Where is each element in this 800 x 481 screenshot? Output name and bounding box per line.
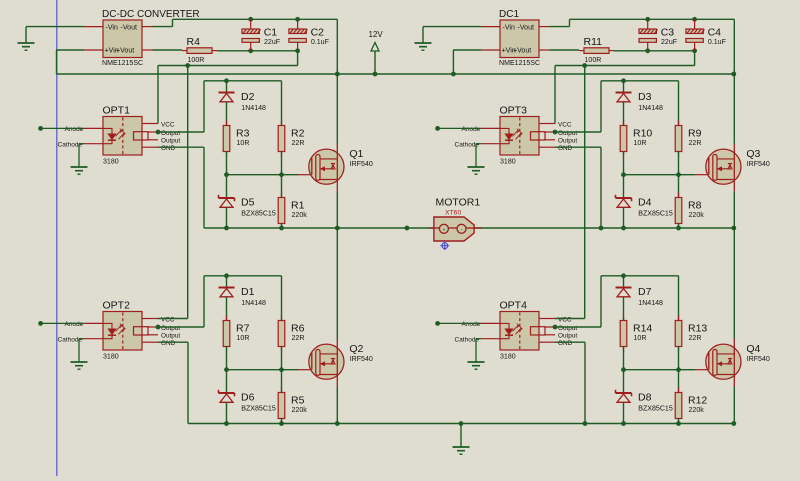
origin marker — [442, 243, 448, 249]
wire — [678, 370, 680, 393]
svg-text:OPT3: OPT3 — [500, 105, 528, 117]
svg-text:NME1215SC: NME1215SC — [102, 60, 143, 67]
wire -Vout — [153, 26, 173, 28]
svg-text:10R: 10R — [237, 140, 250, 147]
svg-text:3180: 3180 — [103, 354, 119, 361]
optocoupler OPT4 — [500, 312, 539, 351]
junction — [676, 172, 681, 177]
wire — [226, 403, 228, 424]
VCC net wire — [158, 65, 298, 67]
wire — [623, 208, 625, 229]
wire to ground — [460, 424, 462, 448]
VCC feed OPT4 — [555, 318, 585, 320]
anode wire OPT1 — [84, 127, 103, 129]
capacitor C3 — [647, 19, 649, 29]
source wire Q2 — [336, 387, 338, 424]
svg-text:-Vout: -Vout — [121, 24, 137, 31]
junction — [224, 273, 229, 278]
wire — [678, 175, 680, 198]
wire — [226, 102, 228, 126]
svg-text:C2: C2 — [311, 27, 325, 39]
optocoupler OPT3 — [500, 117, 539, 156]
svg-text:3180: 3180 — [500, 159, 516, 166]
wire — [297, 51, 299, 66]
wire — [623, 297, 625, 321]
VCC net wire — [555, 65, 695, 67]
pin Output1 stub OPT2 — [147, 326, 158, 328]
svg-text:D1: D1 — [241, 286, 255, 298]
ground at OPT4 cathode — [468, 361, 485, 363]
VCC feed riser to lower driver — [187, 66, 189, 319]
pin GND stub OPT4 — [539, 341, 555, 343]
svg-text:IRF540: IRF540 — [350, 356, 373, 363]
pin VCC stub OPT2 — [142, 318, 158, 320]
wire — [281, 224, 283, 229]
svg-text:VCC: VCC — [161, 316, 175, 323]
pin stubs — [84, 26, 103, 28]
MOSFET Q1 — [309, 149, 344, 184]
node output dot OPT2 — [156, 325, 161, 330]
LED inside OPT1 — [103, 128, 112, 133]
svg-text:GND: GND — [161, 340, 176, 347]
wire — [678, 224, 680, 229]
pin Output2 stub OPT1 — [147, 139, 158, 141]
svg-text:D4: D4 — [638, 197, 652, 209]
cap rail — [217, 50, 298, 52]
riser to 12V bus — [56, 50, 58, 74]
svg-text:-Vout: -Vout — [518, 24, 534, 31]
svg-text:VCC: VCC — [558, 121, 572, 128]
wire — [281, 81, 283, 126]
wire — [623, 276, 625, 287]
ground at -Vin — [415, 42, 432, 44]
diode D2 — [219, 92, 235, 94]
node output dot OPT1 — [156, 130, 161, 135]
capacitor C4 — [694, 19, 696, 29]
wire -Vout — [550, 26, 570, 28]
pin GND stub OPT1 — [142, 146, 158, 148]
resistor R14 — [620, 321, 627, 347]
MOSFET Q2 — [309, 344, 344, 379]
svg-text:BZX85C15: BZX85C15 — [241, 406, 276, 413]
junction — [224, 367, 229, 372]
svg-text:0.1uF: 0.1uF — [311, 39, 330, 46]
svg-text:Anode: Anode — [462, 321, 481, 328]
svg-text:GND: GND — [558, 145, 573, 152]
cathode wire OPT4 — [481, 338, 500, 340]
svg-text:Output: Output — [161, 325, 180, 332]
svg-text:100R: 100R — [585, 57, 602, 64]
svg-text:DC-DC CONVERTER: DC-DC CONVERTER — [102, 9, 200, 20]
svg-text:C3: C3 — [661, 27, 675, 39]
svg-text:R4: R4 — [187, 36, 201, 48]
svg-text:100R: 100R — [188, 57, 205, 64]
gate wire to Q1 — [227, 174, 299, 176]
anode wire OPT4 — [481, 322, 500, 324]
wire — [678, 347, 680, 370]
anode wire OPT2 — [84, 322, 103, 324]
cathode wire OPT3 — [481, 143, 500, 145]
resistor R13 — [675, 321, 682, 347]
anode terminal OPT2 — [38, 321, 43, 326]
junction — [224, 421, 229, 426]
svg-text:BZX85C15: BZX85C15 — [638, 211, 673, 218]
svg-text:22uF: 22uF — [264, 39, 281, 46]
ground at OPT3 cathode — [468, 166, 485, 168]
svg-text:R11: R11 — [584, 36, 603, 48]
resistor R6 — [278, 321, 285, 347]
wire — [281, 419, 283, 424]
svg-text:-: - — [461, 227, 463, 233]
junction — [645, 17, 650, 22]
svg-text:22R: 22R — [292, 140, 305, 147]
svg-text:Anode: Anode — [65, 321, 84, 328]
svg-text:Output: Output — [161, 130, 180, 137]
pin Output2 stub OPT3 — [544, 139, 555, 141]
resistor R2 — [278, 126, 285, 152]
pin GND stub OPT2 — [142, 341, 158, 343]
wire — [226, 370, 228, 393]
svg-text:+Vout: +Vout — [116, 47, 134, 54]
svg-text:22uF: 22uF — [661, 39, 678, 46]
svg-text:D3: D3 — [638, 91, 652, 103]
drain wire Q2 — [336, 228, 338, 339]
svg-text:R13: R13 — [688, 322, 707, 334]
wire — [678, 152, 680, 175]
junction — [224, 172, 229, 177]
svg-text:R2: R2 — [291, 127, 305, 139]
zener diode D6 — [219, 392, 235, 394]
junction — [645, 48, 650, 53]
pin Output2 stub OPT4 — [544, 334, 555, 336]
diode D7 — [616, 287, 632, 289]
svg-text:Q3: Q3 — [746, 148, 760, 160]
svg-text:BZX85C15: BZX85C15 — [638, 406, 673, 413]
svg-text:220k: 220k — [292, 212, 308, 219]
svg-text:MOTOR1: MOTOR1 — [436, 197, 481, 209]
junction — [224, 226, 229, 231]
cap rail — [614, 50, 695, 52]
junction — [248, 17, 253, 22]
connector MOTOR1 (XT60) — [434, 217, 474, 241]
top rail (-Vout net) — [570, 18, 735, 20]
anode wire OPT3 — [481, 127, 500, 129]
svg-text:D2: D2 — [241, 91, 255, 103]
blue sheet border line — [56, 0, 58, 476]
anode terminal OPT3 — [435, 126, 440, 131]
svg-text:NME1215SC: NME1215SC — [499, 60, 540, 67]
wire +Vin — [56, 49, 84, 51]
svg-text:+: + — [442, 227, 445, 233]
svg-text:R3: R3 — [236, 127, 250, 139]
svg-text:IRF540: IRF540 — [350, 161, 373, 168]
wire — [281, 152, 283, 175]
drain wire Q3 — [733, 74, 735, 144]
wire — [226, 152, 228, 175]
svg-text:DC1: DC1 — [499, 9, 519, 20]
wire +Vout — [153, 49, 183, 51]
pin Output1 stub OPT4 — [544, 326, 555, 328]
resistor R1 — [278, 198, 285, 224]
junction — [279, 172, 284, 177]
ground at OPT2 cathode — [71, 361, 88, 363]
wire — [281, 276, 283, 321]
VCC feed riser to lower driver — [584, 66, 586, 319]
svg-text:Output: Output — [558, 130, 577, 137]
GND wire OPT1 — [158, 146, 204, 148]
wire — [678, 276, 680, 321]
svg-text:D6: D6 — [241, 392, 255, 404]
wire +Vout — [550, 49, 580, 51]
DC-DC converter DC1 — [500, 20, 539, 58]
wire — [281, 370, 283, 393]
wire — [623, 347, 625, 370]
pin VCC stub OPT4 — [539, 318, 555, 320]
svg-text:VCC: VCC — [161, 121, 175, 128]
svg-text:-Vin: -Vin — [106, 24, 118, 31]
svg-text:10R: 10R — [634, 140, 647, 147]
ground at bottom rail — [453, 446, 470, 448]
wire — [623, 175, 625, 198]
power terminal 12V — [374, 51, 376, 74]
svg-text:Anode: Anode — [462, 126, 481, 133]
node output dot OPT3 — [553, 130, 558, 135]
output stage of OPT1 — [134, 132, 149, 140]
top rail (-Vout net) — [173, 18, 338, 20]
resistor R8 — [675, 198, 682, 224]
svg-text:3180: 3180 — [103, 159, 119, 166]
gate wire to Q4 — [624, 369, 696, 371]
output stage of OPT2 — [134, 327, 149, 335]
drain wire Q1 — [336, 74, 338, 144]
svg-text:10R: 10R — [237, 335, 250, 342]
source wire Q3 — [733, 192, 735, 228]
LED inside OPT3 — [500, 128, 509, 133]
ground at -Vin — [18, 42, 35, 44]
output stage of OPT4 — [531, 327, 546, 335]
gate wire to Q3 — [624, 174, 696, 176]
cathode wire OPT2 — [84, 338, 103, 340]
svg-text:1N4148: 1N4148 — [241, 300, 266, 307]
MOSFET Q4 — [706, 344, 741, 379]
GND wire OPT2 — [158, 341, 188, 343]
svg-text:Output: Output — [558, 325, 577, 332]
svg-text:VCC: VCC — [558, 316, 572, 323]
wire — [226, 347, 228, 370]
optocoupler OPT2 — [103, 312, 142, 351]
zener diode D5 — [219, 197, 235, 199]
wire — [623, 152, 625, 175]
svg-text:Q1: Q1 — [349, 148, 363, 160]
svg-text:OPT2: OPT2 — [103, 300, 131, 312]
junction — [621, 78, 626, 83]
wire +Vin — [453, 49, 481, 51]
LED inside OPT2 — [103, 323, 112, 328]
svg-text:R6: R6 — [291, 322, 305, 334]
svg-text:C4: C4 — [708, 27, 722, 39]
LED inside OPT4 — [500, 323, 509, 328]
svg-text:0.1uF: 0.1uF — [708, 39, 727, 46]
VCC feed OPT2 — [158, 318, 188, 320]
anode terminal OPT1 — [38, 126, 43, 131]
svg-text:22R: 22R — [689, 140, 702, 147]
wire output of OPT4 to gate network — [555, 326, 601, 328]
wire — [694, 51, 696, 66]
wire — [678, 81, 680, 126]
svg-text:Output: Output — [558, 333, 577, 340]
wire output of OPT3 to gate network — [555, 131, 601, 133]
wire output of OPT2 to gate network — [158, 326, 204, 328]
svg-text:1N4148: 1N4148 — [638, 300, 663, 307]
resistor R10 — [620, 126, 627, 152]
svg-text:OPT4: OPT4 — [500, 300, 528, 312]
svg-text:Anode: Anode — [65, 126, 84, 133]
ground at OPT1 cathode — [71, 166, 88, 168]
svg-text:22R: 22R — [689, 335, 702, 342]
pin Output2 stub OPT2 — [147, 334, 158, 336]
svg-text:R9: R9 — [688, 127, 702, 139]
resistor R9 — [675, 126, 682, 152]
wire — [623, 81, 625, 92]
pin VCC stub OPT1 — [142, 123, 158, 125]
GND wire OPT4 — [555, 341, 585, 343]
svg-text:GND: GND — [558, 340, 573, 347]
junction — [676, 367, 681, 372]
diode D3 — [616, 92, 632, 94]
svg-text:-Vin: -Vin — [503, 24, 515, 31]
svg-text:+Vout: +Vout — [513, 47, 531, 54]
wire — [623, 403, 625, 424]
svg-text:220k: 220k — [292, 407, 308, 414]
svg-text:220k: 220k — [689, 407, 705, 414]
zener diode D4 — [616, 197, 632, 199]
svg-text:R1: R1 — [291, 199, 305, 211]
svg-text:Output: Output — [161, 138, 180, 145]
junction — [621, 273, 626, 278]
svg-text:IRF540: IRF540 — [747, 161, 770, 168]
resistor R11 — [584, 48, 609, 54]
svg-text:10R: 10R — [634, 335, 647, 342]
source wire Q4 — [733, 387, 735, 424]
motor rail wire — [204, 227, 434, 229]
resistor R7 — [223, 321, 230, 347]
junction — [185, 63, 190, 68]
svg-text:IRF540: IRF540 — [747, 356, 770, 363]
resistor R12 — [675, 393, 682, 419]
svg-text:220k: 220k — [689, 212, 705, 219]
GND wire OPT3 — [555, 146, 601, 148]
gate wire to Q2 — [227, 369, 299, 371]
DC-DC converter DC-DC CONVERTER — [103, 20, 142, 58]
svg-text:22R: 22R — [292, 335, 305, 342]
drain wire Q4 — [733, 228, 735, 339]
wire — [281, 347, 283, 370]
MOSFET Q3 — [706, 149, 741, 184]
wire — [623, 370, 625, 393]
svg-text:Q2: Q2 — [349, 343, 363, 355]
cathode wire OPT1 — [84, 143, 103, 145]
svg-text:OPT1: OPT1 — [103, 105, 131, 117]
resistor R3 — [223, 126, 230, 152]
resistor R4 — [187, 48, 212, 54]
svg-text:1N4148: 1N4148 — [241, 105, 266, 112]
svg-text:Q4: Q4 — [746, 343, 760, 355]
riser to 12V bus — [452, 50, 454, 74]
junction — [279, 367, 284, 372]
svg-text:R8: R8 — [688, 199, 702, 211]
pin VCC stub OPT3 — [539, 123, 555, 125]
output stage of OPT3 — [531, 132, 546, 140]
svg-text:D5: D5 — [241, 197, 255, 209]
svg-text:R12: R12 — [688, 394, 707, 406]
svg-text:1N4148: 1N4148 — [638, 105, 663, 112]
wire — [678, 419, 680, 424]
svg-text:C1: C1 — [264, 27, 278, 39]
svg-text:D8: D8 — [638, 392, 652, 404]
pin Output1 stub OPT3 — [544, 131, 555, 133]
optocoupler OPT1 — [103, 117, 142, 156]
svg-text:R10: R10 — [633, 127, 652, 139]
resistor R5 — [278, 393, 285, 419]
svg-text:Output: Output — [558, 138, 577, 145]
wire — [623, 102, 625, 126]
pin GND stub OPT3 — [539, 146, 555, 148]
junction — [621, 172, 626, 177]
VCC riser OPT3 — [554, 66, 556, 124]
wire -Vin — [26, 26, 84, 28]
pin Output1 stub OPT1 — [147, 131, 158, 133]
svg-text:R5: R5 — [291, 394, 305, 406]
wire — [226, 208, 228, 229]
junction — [224, 78, 229, 83]
svg-text:R14: R14 — [633, 322, 652, 334]
svg-text:D7: D7 — [638, 286, 652, 298]
svg-text:3180: 3180 — [500, 354, 516, 361]
svg-text:R7: R7 — [236, 322, 250, 334]
ground rail wire — [188, 423, 734, 425]
junction — [248, 48, 253, 53]
svg-text:BZX85C15: BZX85C15 — [241, 211, 276, 218]
svg-text:XT60: XT60 — [445, 210, 461, 217]
pin stubs — [481, 26, 500, 28]
wire output of OPT1 to gate network — [158, 131, 204, 133]
wire — [281, 175, 283, 198]
wire -Vin — [423, 26, 481, 28]
junction — [621, 367, 626, 372]
VCC riser OPT1 — [157, 66, 159, 124]
node output dot OPT4 — [553, 325, 558, 330]
wire — [226, 297, 228, 321]
capacitor C1 — [250, 19, 252, 29]
svg-text:12V: 12V — [369, 30, 384, 39]
svg-text:GND: GND — [161, 145, 176, 152]
junction — [335, 72, 340, 77]
12V bus wire — [57, 73, 734, 75]
junction — [582, 63, 587, 68]
wire — [226, 175, 228, 198]
svg-text:Output: Output — [161, 333, 180, 340]
capacitor C2 — [297, 19, 299, 29]
wire — [226, 276, 228, 287]
anode terminal OPT4 — [435, 321, 440, 326]
diode D1 — [219, 287, 235, 289]
zener diode D8 — [616, 392, 632, 394]
source wire Q1 — [336, 192, 338, 228]
wire — [226, 81, 228, 92]
